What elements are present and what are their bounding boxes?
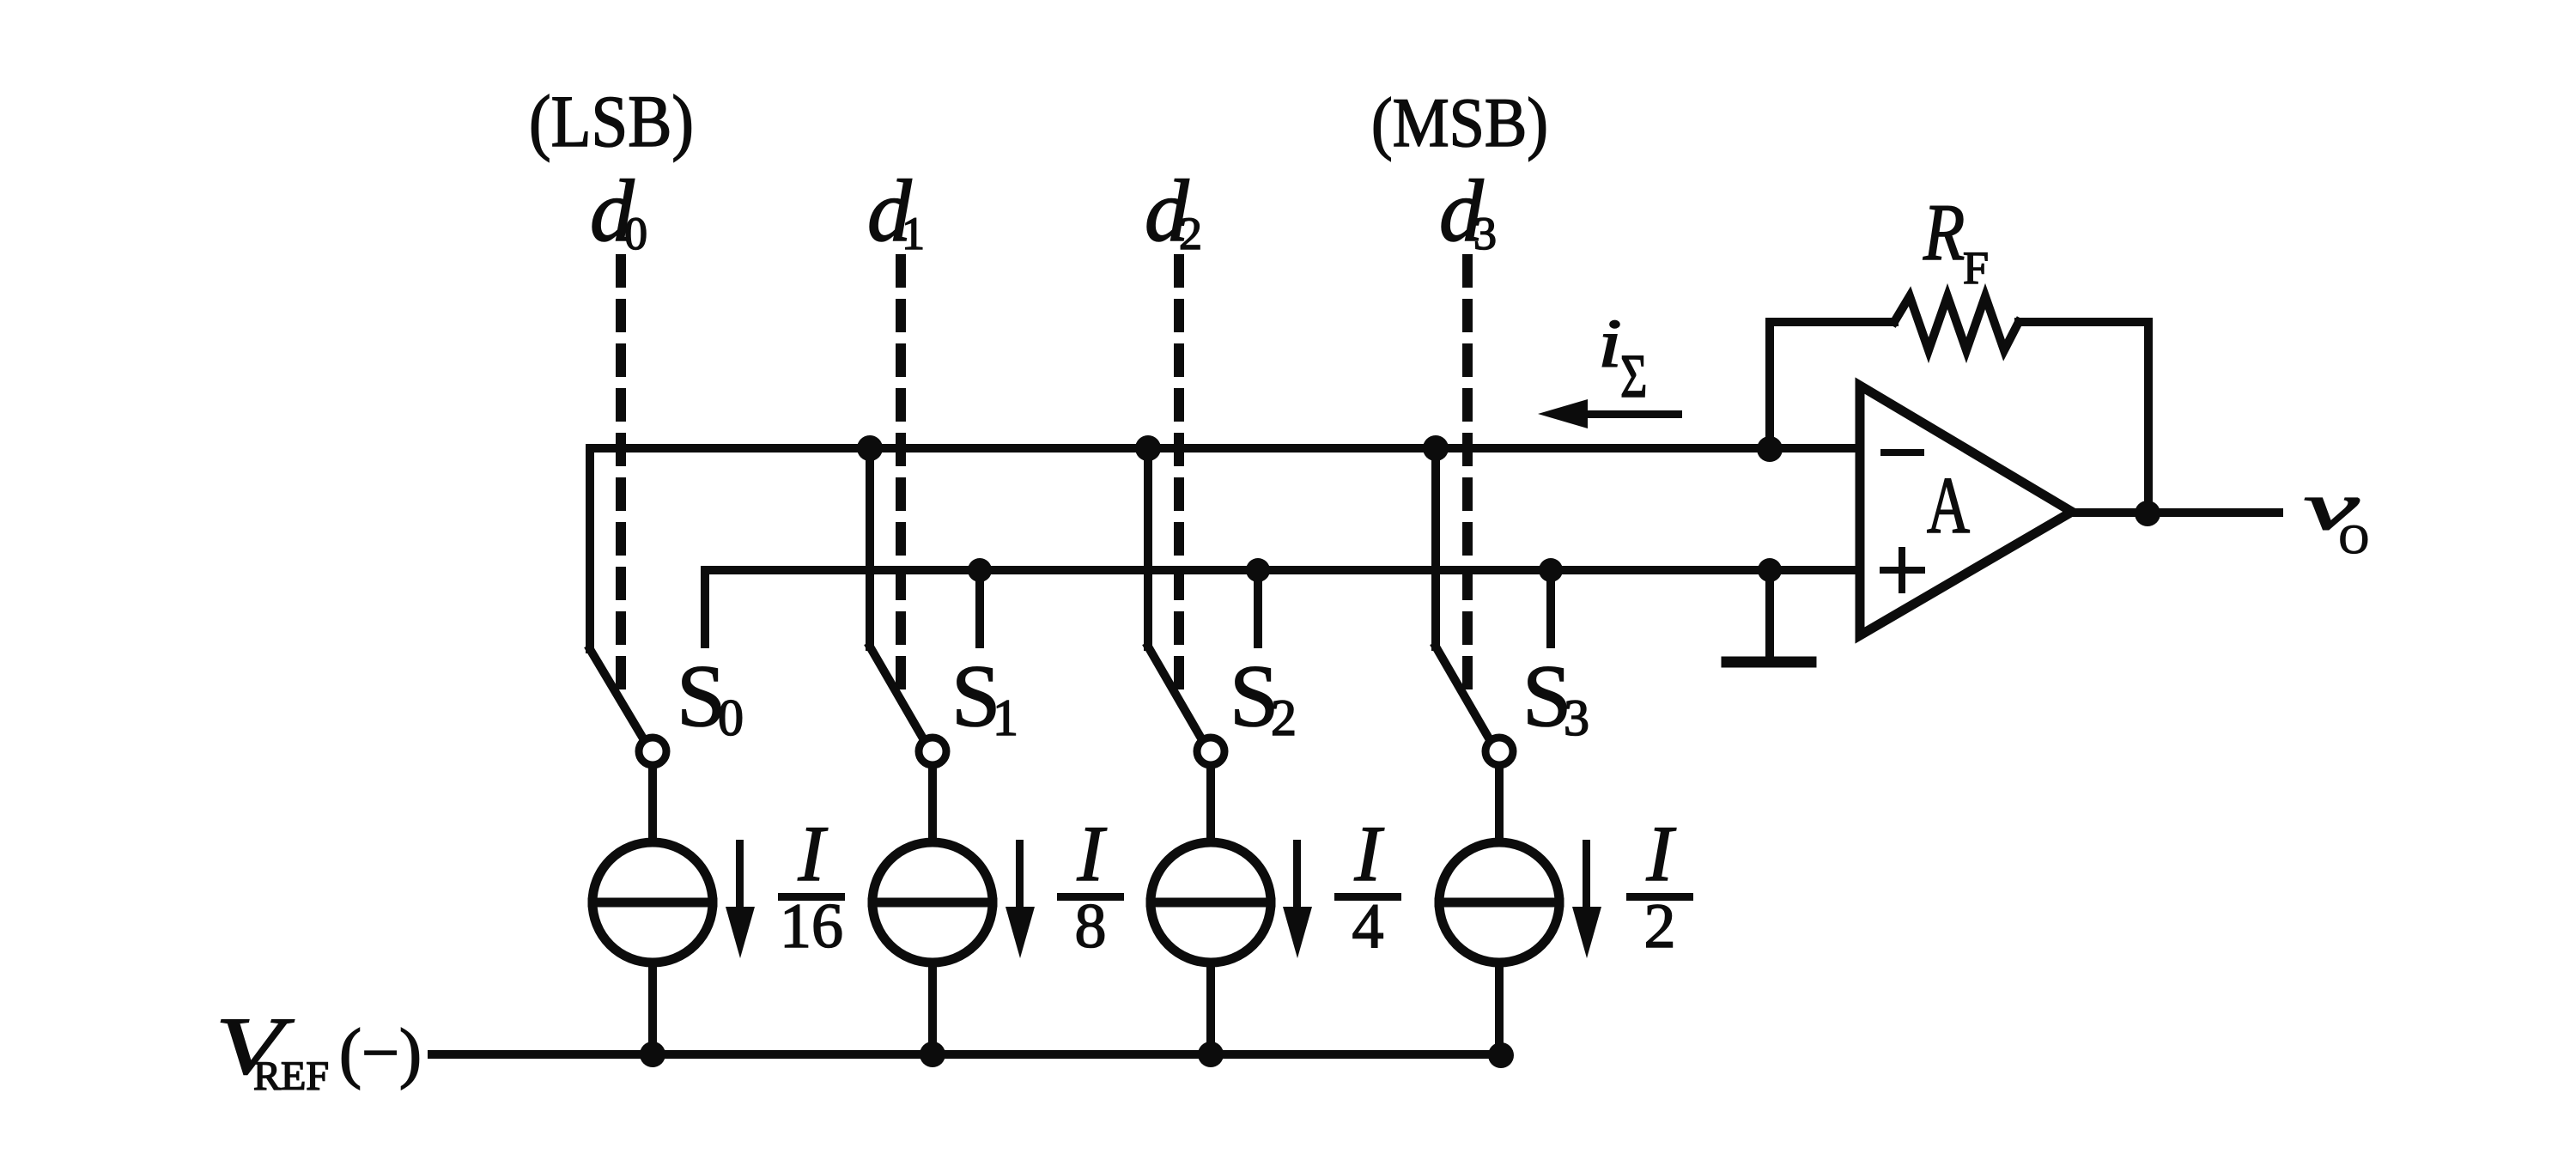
label I/8 <box>1057 810 1124 962</box>
svg-text:(−): (−) <box>339 1015 422 1090</box>
svg-text:0: 0 <box>718 689 744 746</box>
label I/16 <box>778 810 845 962</box>
svg-text:0: 0 <box>624 208 647 259</box>
ground <box>1727 570 1811 662</box>
svg-text:3: 3 <box>1473 208 1497 259</box>
current source I/2 arrow <box>1572 840 1601 958</box>
node junction dot I/2 on Vref bus <box>1488 1042 1514 1068</box>
svg-text:8: 8 <box>1075 891 1107 962</box>
svg-text:3: 3 <box>1564 689 1589 746</box>
node junction dot S1 stub <box>968 558 992 582</box>
label S1 <box>951 647 1018 746</box>
node junction dot I/16 on Vref bus <box>640 1042 665 1067</box>
label S3 <box>1522 647 1589 746</box>
svg-text:I: I <box>798 810 829 897</box>
node junction dot d3 on summing bus <box>1423 435 1449 461</box>
wire Vref bottom bus <box>432 1050 1501 1059</box>
node junction dot I/8 on Vref bus <box>920 1042 945 1067</box>
svg-text:A: A <box>1927 460 1970 550</box>
wire I/16 to Vref bus <box>648 963 657 1054</box>
label RF <box>1923 188 1989 294</box>
svg-text:16: 16 <box>780 891 843 962</box>
label I/2 <box>1626 810 1693 962</box>
wire d2 dashed control line <box>1174 259 1184 697</box>
current source I/8 arrow <box>1005 840 1035 958</box>
node d3 label <box>1439 162 1497 260</box>
switch S3 <box>1436 647 1513 842</box>
wire summing bus to op-amp inverting input <box>590 448 1860 649</box>
op-amp minus sign <box>1884 449 1921 456</box>
svg-text:I: I <box>1646 810 1677 897</box>
label vO <box>2304 470 2369 562</box>
wire feedback from summing node <box>1770 322 1894 450</box>
node junction dot ground stub <box>1758 558 1782 582</box>
op-amp plus sign <box>1883 550 1922 590</box>
node output junction dot <box>2135 501 2160 526</box>
current source I/16 arrow <box>726 840 755 958</box>
node junction dot I/4 on Vref bus <box>1198 1042 1224 1067</box>
label I/4 <box>1334 810 1401 962</box>
current source I/4 arrow <box>1283 840 1312 958</box>
wire switch S2 drop <box>1144 448 1152 647</box>
wire switch S1 drop <box>866 448 874 647</box>
wire S2 ground-bus stub <box>1254 570 1262 644</box>
switch S2 <box>1148 647 1224 842</box>
node junction dot d2 on summing bus <box>1135 435 1161 461</box>
svg-text:I: I <box>1354 810 1385 897</box>
label S2 <box>1230 647 1297 746</box>
label S0 <box>677 647 744 746</box>
svg-text:R: R <box>1923 188 1965 277</box>
wire d1 dashed control line <box>896 259 906 697</box>
wire switch S3 drop <box>1431 448 1440 647</box>
svg-text:O: O <box>2339 517 2369 562</box>
wire I/2 to Vref bus <box>1495 963 1504 1054</box>
current arrow i sigma <box>1538 399 1682 428</box>
svg-text:4: 4 <box>1352 891 1384 962</box>
svg-text:(LSB): (LSB) <box>529 80 694 162</box>
svg-text:REF: REF <box>253 1054 329 1099</box>
wire op-amp output <box>2072 508 2279 517</box>
wire I/8 to Vref bus <box>928 963 937 1054</box>
svg-text:I: I <box>1077 810 1108 897</box>
label i sigma <box>1598 305 1647 410</box>
wire d0 dashed control line <box>616 259 626 697</box>
wire ground bus to op-amp noninverting input <box>705 570 1860 644</box>
node d1 label <box>867 162 925 260</box>
current source I/4 <box>1151 842 1271 963</box>
switch S0 <box>590 649 666 842</box>
wire S1 ground-bus stub <box>975 570 984 644</box>
current source I/2 <box>1439 842 1559 963</box>
wire d3 dashed control line <box>1462 259 1473 697</box>
svg-text:2: 2 <box>1644 891 1676 962</box>
svg-text:1: 1 <box>902 208 925 259</box>
wire I/4 to Vref bus <box>1206 963 1215 1054</box>
node junction dot d1 on summing bus <box>857 435 883 461</box>
svg-text:1: 1 <box>993 689 1018 746</box>
node d2 label <box>1145 162 1202 260</box>
node junction dot feedback on summing bus <box>1757 436 1783 462</box>
wire S3 ground-bus stub <box>1546 570 1555 644</box>
svg-text:2: 2 <box>1271 689 1297 746</box>
svg-text:F: F <box>1963 242 1989 294</box>
svg-text:2: 2 <box>1179 208 1202 259</box>
op-amp A <box>1860 386 2072 635</box>
node junction dot S2 stub <box>1246 558 1270 582</box>
current source I/16 <box>592 842 713 963</box>
svg-text:Σ: Σ <box>1620 342 1647 410</box>
wire feedback to output node <box>2019 322 2148 513</box>
label VREF(-) <box>216 1000 422 1099</box>
current source I/8 <box>872 842 993 963</box>
svg-text:i: i <box>1598 305 1622 381</box>
switch S1 <box>870 647 946 842</box>
op-amp gain label A <box>1927 460 1970 550</box>
svg-text:(MSB): (MSB) <box>1371 83 1548 161</box>
node junction dot S3 stub <box>1539 558 1563 582</box>
node d0 label <box>590 162 647 260</box>
resistor RF <box>1894 296 2019 350</box>
